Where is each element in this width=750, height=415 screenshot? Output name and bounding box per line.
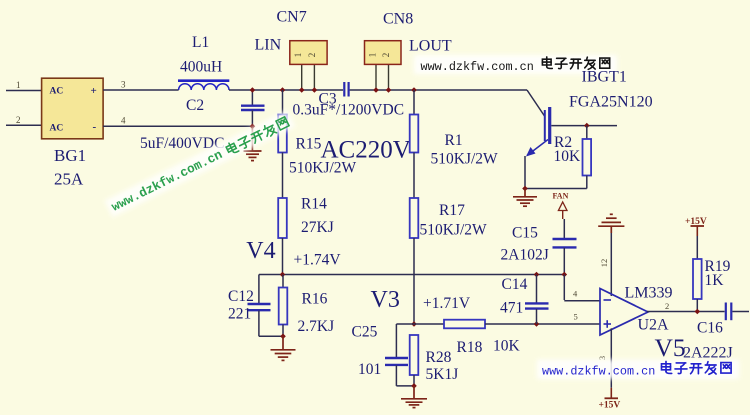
resistor R19 [693, 259, 702, 312]
svg-text:2A102J: 2A102J [501, 247, 549, 264]
transistor IBGT1 gate bar [545, 107, 550, 144]
wire emitter to R2 bottom [525, 188, 587, 190]
watermark top black www.dzkfw.com.cn [414, 55, 617, 74]
svg-text:www.dzkfw.com.cn: www.dzkfw.com.cn [421, 60, 534, 74]
junction dot C14 top [534, 272, 540, 278]
svg-text:C16: C16 [697, 320, 723, 337]
svg-text:C14: C14 [502, 276, 528, 293]
svg-text:2A222J: 2A222J [683, 345, 733, 362]
svg-text:V5: V5 [655, 333, 686, 362]
junction dot R15 top [280, 87, 286, 93]
svg-text:10K: 10K [554, 148, 582, 165]
svg-text:U2A: U2A [638, 317, 670, 334]
svg-text:0.3uF*/1200VDC: 0.3uF*/1200VDC [293, 102, 405, 119]
svg-text:+1.71V: +1.71V [423, 295, 471, 312]
wire V3 to C25 branch [396, 324, 414, 358]
junction dot C15 bottom [562, 272, 568, 278]
watermark bottom blue www.dzkfw.com.cn [537, 360, 739, 380]
junction dot V4 [280, 272, 286, 278]
wire pin1 BG1 [6, 90, 42, 92]
svg-text:CN7: CN7 [277, 9, 307, 26]
svg-text:www.dzkfw.com.cn: www.dzkfw.com.cn [542, 365, 655, 379]
wire V3 to R18 [414, 323, 444, 325]
svg-text:510KJ/2W: 510KJ/2W [431, 151, 499, 168]
watermark green diagonal www.dzkfw.com.cn [104, 110, 295, 217]
wire node V4 horizontal [259, 274, 564, 276]
resistor R14 [278, 198, 287, 238]
junction dot R16 bottom [280, 334, 286, 340]
svg-text:25A: 25A [54, 170, 84, 189]
junction dot CN7 pin2 [312, 87, 318, 93]
svg-text:2: 2 [307, 53, 317, 58]
resistor R15 [278, 90, 287, 153]
capacitor C14 [525, 275, 549, 325]
wire IGBT collector [551, 125, 617, 127]
junction dot bottom of C2 [250, 124, 256, 130]
junction dot CN8 pin2 [386, 87, 392, 93]
IGBT emitter diagonal with arrow [525, 140, 548, 189]
resistor R2 [583, 126, 592, 189]
svg-text:400uH: 400uH [180, 59, 222, 76]
svg-text:2: 2 [665, 301, 669, 311]
junction dot R1 top [411, 87, 417, 93]
resistor R18 [444, 320, 485, 329]
svg-text:4: 4 [573, 289, 578, 299]
svg-text:10K: 10K [493, 338, 521, 355]
resistor R28 [410, 335, 419, 386]
junction dot R28 bottom [411, 383, 417, 389]
op-amp U2A LM339 [600, 289, 648, 336]
svg-text:2: 2 [16, 115, 21, 125]
junction dot collector R2 [584, 123, 590, 129]
ground under C2 [244, 126, 262, 160]
svg-text:3: 3 [121, 80, 126, 90]
svg-text:CN8: CN8 [383, 11, 413, 28]
svg-text:12: 12 [599, 259, 609, 268]
wire opamp pin3 to +15V [610, 328, 612, 388]
svg-text:471: 471 [500, 300, 523, 317]
svg-text:1: 1 [293, 53, 303, 58]
ground under IGBT emitter [513, 189, 537, 207]
svg-text:FAN: FAN [553, 192, 569, 201]
wire opamp output [647, 311, 725, 313]
IGBT gate wire diagonal [527, 90, 545, 116]
svg-text:BG1: BG1 [54, 146, 86, 165]
wire R18 to opamp plus input [485, 323, 600, 325]
svg-text:5: 5 [574, 312, 578, 322]
svg-text:1: 1 [16, 80, 21, 90]
connector CN8 [365, 41, 402, 90]
wire C15 node to opamp minus input [564, 275, 600, 301]
svg-text:221: 221 [228, 306, 251, 323]
svg-text:AC: AC [50, 124, 64, 134]
svg-text:4: 4 [121, 116, 126, 126]
svg-text:1K: 1K [705, 272, 725, 289]
junction dot C14 bottom [534, 321, 540, 327]
svg-text:LM339: LM339 [625, 285, 673, 302]
junction dot emitter [522, 186, 528, 192]
ground above opamp pin 12 [598, 214, 624, 233]
svg-text:R14: R14 [301, 196, 327, 213]
ground under R16 [271, 336, 296, 360]
svg-text:R16: R16 [302, 291, 328, 308]
junction dot CN7 pin1 [299, 87, 305, 93]
wire R17 to node V3 [413, 238, 415, 324]
svg-text:-: - [93, 121, 97, 133]
inductor L1 [178, 81, 229, 90]
ground under R28 [401, 386, 427, 408]
svg-text:C12: C12 [228, 288, 254, 305]
wire FAN to C15 [563, 219, 565, 239]
svg-text:V3: V3 [371, 287, 400, 313]
svg-text:C25: C25 [352, 324, 378, 341]
svg-text:LIN: LIN [255, 37, 282, 54]
wire pin3 BG1 to L1 [103, 89, 179, 91]
wire L1 to C3 [229, 89, 343, 91]
capacitor C12 [248, 275, 284, 337]
power +15V below opamp [599, 388, 621, 411]
svg-text:2: 2 [381, 53, 391, 58]
junction dot top of C2 [250, 87, 256, 93]
capacitor C15 [553, 239, 577, 275]
svg-text:510KJ/2W: 510KJ/2W [420, 222, 488, 239]
svg-text:3: 3 [597, 356, 607, 360]
svg-text:+1.74V: +1.74V [294, 252, 342, 269]
junction dot V3 [411, 321, 417, 327]
svg-text:V4: V4 [246, 238, 275, 264]
svg-text:2.7KJ: 2.7KJ [298, 318, 335, 335]
wire R1 to R17 [413, 153, 415, 199]
wire pin4 BG1 to C2 [103, 125, 252, 127]
capacitor C25 [385, 358, 414, 386]
svg-text:R18: R18 [457, 339, 483, 356]
svg-text:1: 1 [368, 53, 378, 58]
svg-text:510KJ/2W: 510KJ/2W [289, 160, 357, 177]
wire R15 to R14 [282, 153, 284, 199]
power +15V above R19 [685, 217, 707, 236]
svg-text:+15V: +15V [599, 401, 621, 411]
svg-text:IBGT1: IBGT1 [582, 69, 627, 86]
connector CN7 [290, 41, 327, 90]
svg-text:R15: R15 [296, 136, 322, 153]
wire ground to opamp pin12 [610, 233, 612, 296]
wire R14 to node V4 [282, 238, 284, 275]
svg-text:5K1J: 5K1J [426, 366, 459, 383]
resistor R16 [279, 275, 288, 337]
capacitor C3 [344, 82, 348, 97]
svg-text:27KJ: 27KJ [301, 219, 334, 236]
svg-text:+: + [91, 85, 97, 97]
net label FAN [553, 192, 569, 220]
svg-text:FGA25N120: FGA25N120 [569, 94, 653, 111]
capacitor C16 [726, 303, 749, 321]
svg-text:L1: L1 [192, 34, 209, 51]
junction dot CN8 pin1 [373, 87, 379, 93]
svg-text:C15: C15 [512, 225, 538, 242]
svg-text:R28: R28 [426, 349, 452, 366]
resistor R1 [410, 90, 419, 153]
svg-text:AC: AC [50, 87, 64, 97]
svg-text:101: 101 [358, 361, 381, 378]
resistor R17 [410, 198, 419, 238]
svg-text:R1: R1 [445, 132, 463, 149]
svg-text:R17: R17 [439, 202, 465, 219]
svg-text:www.dzkfw.com.cn: www.dzkfw.com.cn [109, 147, 225, 215]
wire C3 to IGBT gate [350, 89, 527, 91]
svg-text:LOUT: LOUT [409, 38, 452, 55]
wire pin2 BG1 [6, 124, 42, 126]
svg-text:C2: C2 [186, 97, 204, 114]
junction dot output R19 [695, 309, 701, 315]
bridge rectifier BG1 [42, 78, 104, 139]
wire +15V to R19 [696, 236, 698, 259]
capacitor C2 [241, 90, 265, 126]
